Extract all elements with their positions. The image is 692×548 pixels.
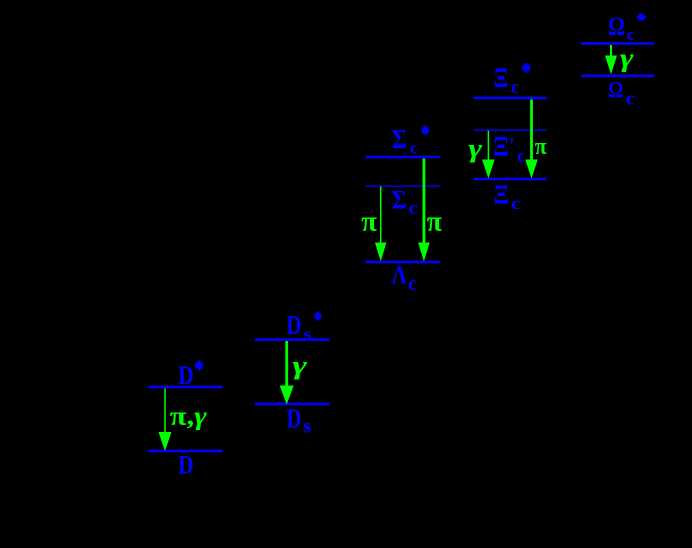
arrow Xi_c* to Xi_c (pi transition) bbox=[525, 100, 538, 179]
label Sigma_c (Sigma) bbox=[392, 186, 407, 215]
label Xi_c (Xi) bbox=[494, 180, 509, 210]
label Ds (D) bbox=[286, 404, 301, 434]
svg-text:c: c bbox=[511, 194, 521, 214]
arrow Ds* to Ds (gamma transition) bbox=[280, 341, 294, 405]
level line D* bbox=[148, 386, 223, 389]
arrow Sigma_c* to Lambda_c (pi transition) bbox=[418, 159, 430, 262]
label pi,gamma on D*->D arrow bbox=[170, 403, 207, 431]
arrow D* to D (pi/gamma transition) bbox=[159, 389, 172, 452]
svg-text:γ: γ bbox=[468, 134, 482, 164]
svg-text:′: ′ bbox=[510, 132, 514, 163]
label Ds (s subscript) bbox=[303, 416, 311, 437]
label gamma on Ds*->Ds arrow bbox=[292, 350, 308, 380]
svg-text:γ: γ bbox=[620, 43, 634, 73]
label Lambda_c (Lambda) bbox=[392, 260, 408, 290]
svg-text:D: D bbox=[178, 450, 194, 480]
label Sigma_c* (asterisk) bbox=[421, 126, 429, 136]
svg-text:Ξ: Ξ bbox=[493, 131, 509, 163]
svg-text:π: π bbox=[427, 206, 442, 237]
label gamma on Omega_c*->Omega_c arrow bbox=[620, 43, 634, 73]
level line Sigma_c* bbox=[366, 156, 441, 159]
level line Omega_c* bbox=[581, 42, 654, 45]
level line Xi_c* bbox=[474, 97, 547, 100]
label Omega_c* (asterisk) bbox=[637, 13, 646, 21]
svg-text:c: c bbox=[408, 273, 417, 295]
svg-text:c: c bbox=[511, 78, 519, 98]
label D bbox=[178, 450, 194, 480]
label Ds* (D) bbox=[286, 310, 301, 340]
level line Lambda_c bbox=[366, 261, 441, 264]
label pi on Sigma_c*->Lambda_c arrow bbox=[427, 206, 442, 237]
label Xi_c' (prime) bbox=[510, 132, 514, 163]
arrow Omega_c* to Omega_c (gamma transition) bbox=[605, 45, 617, 75]
level line Sigma_c bbox=[366, 186, 441, 187]
level line Xi_c bbox=[474, 178, 547, 181]
svg-text:c: c bbox=[517, 145, 525, 166]
level line Xi_c-prime bbox=[474, 130, 547, 131]
label Omega_c* (Omega) bbox=[608, 13, 625, 42]
svg-text:Ω: Ω bbox=[608, 77, 623, 103]
label Sigma_c (c subscript) bbox=[408, 198, 417, 219]
svg-text:c: c bbox=[627, 25, 635, 44]
label D* (D) bbox=[178, 362, 194, 390]
label Lambda_c (c subscript) bbox=[408, 273, 417, 295]
label Sigma_c* (Sigma) bbox=[392, 123, 407, 154]
label Ds* (asterisk) bbox=[314, 312, 321, 320]
label D* (asterisk) bbox=[195, 360, 204, 370]
label gamma on Xi_c'->Xi_c arrow bbox=[468, 134, 482, 164]
svg-text:D: D bbox=[286, 404, 301, 434]
svg-text:γ: γ bbox=[292, 350, 308, 380]
label Xi_c (c subscript) bbox=[511, 194, 521, 214]
svg-text:Σ: Σ bbox=[392, 123, 407, 154]
label Xi_c* (asterisk) bbox=[522, 63, 531, 73]
label Xi_c' (Xi) bbox=[493, 131, 509, 163]
label Xi_c* (Xi) bbox=[494, 62, 509, 94]
label Sigma_c* (c subscript) bbox=[410, 138, 417, 158]
label Omega_c (c subscript) bbox=[626, 88, 635, 109]
svg-text:Σ: Σ bbox=[392, 186, 407, 215]
label Omega_c* (c subscript) bbox=[627, 25, 635, 44]
label Xi_c' (c subscript) bbox=[517, 145, 525, 166]
label Xi_c* (c subscript) bbox=[511, 78, 519, 98]
level line Ds* bbox=[255, 338, 330, 341]
svg-text:Ω: Ω bbox=[608, 13, 625, 42]
svg-text:Λ: Λ bbox=[392, 260, 408, 290]
level line Omega_c bbox=[581, 75, 654, 78]
label Ds* (s subscript) bbox=[304, 325, 312, 344]
svg-text:D: D bbox=[178, 362, 194, 390]
level line Ds bbox=[255, 403, 330, 406]
svg-text:Ξ: Ξ bbox=[494, 180, 509, 210]
arrow Xi_c-prime to Xi_c (gamma transition) bbox=[482, 131, 495, 179]
label pi on Xi_c*->Xi_c arrow bbox=[535, 133, 547, 161]
label pi on Sigma_c->Lambda_c arrow bbox=[361, 207, 377, 238]
label Omega_c (Omega) bbox=[608, 77, 623, 103]
svg-text:c: c bbox=[408, 198, 417, 219]
level line D bbox=[148, 450, 223, 453]
svg-text:π: π bbox=[535, 133, 547, 161]
svg-text:s: s bbox=[304, 325, 312, 344]
svg-text:c: c bbox=[626, 88, 635, 109]
svg-text:π,γ: π,γ bbox=[170, 403, 207, 431]
svg-text:c: c bbox=[410, 138, 417, 158]
svg-text:s: s bbox=[303, 416, 311, 437]
svg-text:Ξ: Ξ bbox=[494, 62, 509, 94]
svg-text:D: D bbox=[286, 310, 301, 340]
svg-text:π: π bbox=[361, 207, 377, 238]
arrow Sigma_c to Lambda_c (pi transition) bbox=[375, 186, 387, 261]
